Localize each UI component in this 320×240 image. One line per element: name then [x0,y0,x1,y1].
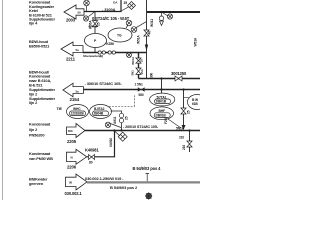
equipment tag WHC [67,105,89,119]
node H6 left [113,129,115,131]
off-page connector 2154 [63,83,84,97]
svg-text:210: 210 [179,136,184,140]
instrument under H3 [127,53,132,58]
pipe V183 [183,90,185,127]
arrowhead into H3 [145,45,148,51]
svg-text:2/B01B: 2/B01B [155,114,166,118]
svg-text:lijn 2: lijn 2 [29,127,38,132]
svg-text:0A910: 0A910 [109,138,113,147]
pipe V114 down [87,131,115,157]
off-page connector 2003 [64,5,84,19]
label block PN56200 [29,122,51,138]
svg-text:2/B01B: 2/B01B [156,100,167,104]
svg-text:5a: 5a [76,48,80,52]
valve on V183 [181,108,186,114]
stem to tag B W [184,97,189,99]
valve on H4 [175,76,182,81]
svg-text:WHC: WHC [73,107,81,111]
svg-text:B 94/9/03 pos 4: B 94/9/03 pos 4 [133,166,162,171]
pump symbol bottom [145,192,152,199]
svg-text:2003: 2003 [66,18,76,23]
svg-text:N: N [71,155,73,159]
svg-text:TIE: TIE [57,107,63,111]
svg-text:geerven: geerven [29,181,44,186]
svg-text:25: 25 [139,59,143,63]
svg-text:030.002.1-250/W 019 -: 030.002.1-250/W 019 - [85,176,124,181]
valve on V189 [187,141,192,147]
svg-text:40: 40 [148,31,152,35]
instrument line F256 [168,119,181,128]
relief valve under H2 [159,12,163,26]
svg-text:216: 216 [182,145,186,150]
stem H5 to tag 5/7TA1 [161,90,163,94]
svg-text:Moerwactert: Moerwactert [83,54,99,58]
svg-text:40: 40 [100,54,104,58]
equipment tag BHF [150,107,174,120]
instrument right of TG [131,22,146,33]
svg-text:W51A: W51A [194,37,198,46]
svg-text:2206: 2206 [67,164,77,169]
svg-text:50: 50 [69,181,73,185]
svg-text:K40981: K40981 [85,147,99,152]
svg-text:030.002.1: 030.002.1 [65,191,83,196]
svg-text:5a: 5a [76,89,80,93]
svg-text:5N1: 5N1 [131,70,135,76]
svg-text:25: 25 [187,110,191,114]
svg-text:5N1A: 5N1A [176,127,185,131]
svg-text:- 200/10 ST24/IC 105-: - 200/10 ST24/IC 105- [123,125,159,129]
pipe H8 [87,181,200,183]
svg-text:A911: A911 [113,116,117,124]
svg-text:lijn 4: lijn 4 [29,21,38,26]
instrument circle below H1 [83,12,95,22]
svg-text:50: 50 [78,11,82,15]
svg-text:2205: 2205 [67,139,77,144]
valve 1 on V139 [136,58,141,63]
svg-text:25: 25 [97,22,101,26]
svg-text:F256: F256 [164,117,168,124]
svg-text:61B: 61B [192,102,198,106]
equipment tag 5/TA1 [150,93,175,106]
svg-text:580: 580 [138,93,143,97]
svg-text:IC X 15: IC X 15 [89,25,98,29]
node H6 right [188,129,190,131]
off-page connector 2206 [67,149,87,164]
pipe H1 [84,0,121,12]
svg-text:2211: 2211 [66,57,76,62]
double ball valve [119,113,123,122]
svg-text:2B04B: 2B04B [94,112,104,116]
svg-text:3001250: 3001250 [171,71,187,76]
svg-text:W51A: W51A [137,35,141,44]
pipe V161 [161,79,163,90]
svg-text:25: 25 [124,1,128,5]
closed valve on H5 [138,87,145,92]
pipe H5 [84,89,201,91]
svg-text:van PN50 WB: van PN50 WB [29,156,53,161]
svg-text:1231B2B: 1231B2B [71,112,85,116]
svg-text:lijn 2: lijn 2 [29,100,38,105]
valve on H3 [98,51,115,54]
svg-text:B.5TA2: B.5TA2 [94,107,105,111]
instrument circle on stem top [84,0,90,11]
node H6 stem [120,129,122,131]
svg-text:- 306/10 ST24/IC 105-: - 306/10 ST24/IC 105- [85,81,123,86]
node on H2 [160,11,162,13]
vessel TG [108,28,132,42]
signal line dashed [109,95,135,107]
svg-text:25: 25 [125,116,129,120]
node H5 [160,88,162,90]
svg-text:W311: W311 [150,19,154,27]
off-page connector 030.002.1 [66,174,88,190]
svg-text:K256: K256 [106,42,114,46]
label block BDW-houd [29,39,50,49]
svg-text:300: 300 [150,73,154,78]
pipe E2 to H6 [111,111,122,131]
svg-text:2154: 2154 [70,97,80,102]
svg-text:BHF: BHF [159,109,166,113]
pipe H4 [139,78,201,80]
label block geerven [29,177,48,187]
pipe V189 down [189,131,191,153]
arrowhead V183 into H6 [182,125,186,130]
equipment tag B.5TA2 [90,105,112,119]
stem P to H3 [94,48,96,53]
valve on V146 [144,30,149,36]
svg-text:- 3100A: - 3100A [102,7,116,12]
tick into H8 [146,174,150,182]
instrument left of node [105,122,121,127]
svg-text:0 ST24/IC 105 - W.5T: 0 ST24/IC 105 - W.5T [92,16,130,21]
node V183 top [182,88,184,90]
pipe H2 top right [147,11,200,13]
svg-text:80: 80 [89,161,93,165]
valve on H7 [89,155,95,160]
svg-text:TG: TG [117,34,122,38]
pipe H6 [85,130,200,132]
svg-text:B 54/9/03 pos 2: B 54/9/03 pos 2 [110,185,138,190]
instrument on TG [126,20,132,28]
off-page connector 2205 [67,124,86,138]
equipment tag B W [188,95,207,110]
pipe V146 [146,0,148,79]
pump P [85,34,107,48]
node H4 [160,77,162,79]
valve 2 on V139 [136,68,141,74]
svg-text:1 5N1: 1 5N1 [135,83,143,87]
svg-text:W31A: W31A [131,56,135,65]
label block lijn 2 [29,69,56,105]
diamond valve top [121,2,135,11]
valve on pump stem [92,21,97,27]
svg-text:Kondensaat: Kondensaat [29,122,51,127]
pipe H3 [83,53,147,79]
label block van PN50 [29,151,53,161]
svg-text:B6500-0521: B6500-0521 [29,44,50,49]
svg-text:300: 300 [68,129,73,133]
off-page connector 2211 [61,42,83,56]
label block lijn 4 [29,0,56,26]
instrument near H2 [163,13,173,19]
pipe drop to pump P [94,12,96,34]
svg-text:PN56200: PN56200 [29,133,44,138]
drain diamond valve [115,132,127,142]
